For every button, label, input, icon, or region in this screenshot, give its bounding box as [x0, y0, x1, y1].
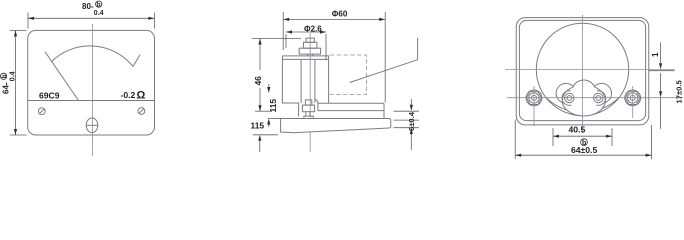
side view body	[282, 56, 328, 116]
svg-text:b: b	[97, 2, 101, 9]
rear housing circle	[536, 23, 628, 115]
body bottom right notch	[316, 99, 318, 111]
base plate	[281, 119, 391, 133]
svg-text:115: 115	[251, 121, 265, 131]
left terminal	[565, 93, 574, 102]
right terminal inner arc	[596, 91, 605, 106]
svg-text:40.5: 40.5	[569, 125, 586, 135]
dimension 80-0.4 top	[27, 13, 29, 29]
dimension phi60	[282, 12, 284, 50]
dimension phi2.6	[285, 34, 287, 48]
svg-text:80-: 80-	[82, 2, 94, 11]
dimension 115 vertical	[268, 84, 270, 90]
left screw	[38, 108, 45, 115]
zero adjuster	[86, 118, 98, 133]
svg-text:Φ2.6: Φ2.6	[304, 25, 322, 34]
svg-text:115: 115	[268, 99, 278, 113]
svg-text:17±0.5: 17±0.5	[675, 80, 684, 104]
body inner verticals	[300, 59, 302, 103]
dimension 1	[660, 43, 662, 64]
dimension 17+-0.5	[660, 73, 662, 91]
svg-text:0.4: 0.4	[10, 71, 17, 81]
rear horizontal centerline	[505, 68, 675, 70]
scale end tick	[133, 55, 140, 67]
symbol b circled	[581, 139, 588, 146]
stud level line	[507, 97, 683, 99]
magnet yoke arc	[547, 98, 619, 112]
right mounting stud	[625, 90, 641, 106]
dimension 64-0.4 left	[10, 29, 27, 31]
svg-text:46: 46	[253, 76, 263, 86]
svg-text:6±0.4: 6±0.4	[407, 111, 416, 131]
rear view outer case	[516, 18, 649, 125]
meter needle	[45, 52, 79, 101]
front view meter outline	[28, 30, 155, 135]
svg-text:64±0.5: 64±0.5	[571, 145, 597, 155]
svg-text:-0.2: -0.2	[121, 90, 136, 100]
svg-text:64-: 64-	[2, 82, 11, 94]
svg-text:1: 1	[651, 52, 660, 57]
left mounting stud	[526, 90, 542, 106]
dimension 6+-0.4	[394, 110, 420, 112]
dial scale arc	[51, 46, 133, 67]
hidden bezel dashed outline	[329, 55, 367, 94]
right screw	[138, 108, 145, 115]
dimension 40.5	[552, 128, 554, 146]
bottom terminal stud	[305, 100, 311, 105]
right terminal ear	[592, 83, 612, 103]
side view centerline	[309, 33, 311, 152]
terminal block blob	[562, 80, 605, 116]
left terminal ear	[556, 83, 576, 103]
rear vertical centerline	[582, 15, 584, 133]
terminal washer on plate	[304, 116, 313, 118]
dial bottom line	[28, 100, 154, 102]
svg-text:0.4: 0.4	[94, 10, 104, 17]
left terminal inner arc	[562, 91, 571, 106]
dimension 64+-0.5	[514, 120, 516, 160]
rear view inner case	[519, 20, 645, 120]
extension line right centerline	[649, 70, 675, 72]
pointer leader line	[350, 38, 418, 83]
svg-text:Ω: Ω	[137, 89, 146, 101]
svg-text:69C9: 69C9	[39, 91, 60, 101]
svg-text:b: b	[1, 74, 8, 78]
right terminal	[594, 93, 603, 102]
dimension 46	[252, 38, 301, 40]
extension line mid ledge	[255, 110, 271, 112]
svg-text:Φ60: Φ60	[332, 9, 348, 18]
vertical centerline front view	[92, 24, 94, 156]
rear shelf lines	[318, 102, 384, 104]
top terminal stud	[306, 38, 314, 42]
